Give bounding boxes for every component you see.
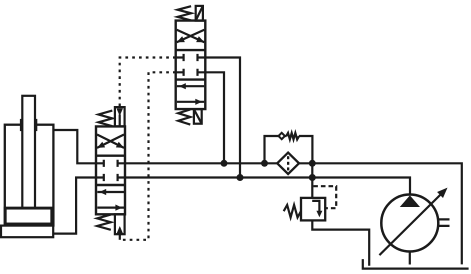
wire bypass branch (265, 136, 313, 163)
rod gland bar right (34, 119, 37, 131)
junction node 3 (309, 160, 316, 167)
junction node 2 (261, 160, 268, 167)
rod gland bar left (20, 119, 23, 131)
relief valve RV1 body (301, 198, 325, 221)
wire V2 lower port to line 1 (205, 72, 224, 163)
pump drive shaft (438, 219, 450, 226)
link line1-line2 to relief (311, 163, 313, 198)
relief valve flow arrow (312, 201, 322, 217)
pilot line to V1 top pilot (120, 58, 176, 108)
valve V2 blocked centre ports (176, 54, 206, 76)
relief valve spring (284, 205, 301, 217)
pilot line to V1 bottom pilot (122, 72, 176, 240)
valve V2 parallel-flow position (177, 83, 204, 105)
valve V2 crossed-flow position (177, 30, 205, 43)
valve V1 blocked centre ports (96, 160, 125, 181)
valve V2 bottom solenoid (194, 109, 202, 124)
pump P1 circle (381, 195, 438, 252)
bypass check valve poppet (279, 133, 285, 139)
valve V1 body (96, 126, 125, 214)
valve V1 bottom pilot arrow (117, 226, 124, 240)
pump outlet triangle (400, 195, 420, 207)
wire relief drain to tank (312, 220, 369, 265)
cylinder piston rod (22, 96, 35, 208)
valve V2 top spring (178, 6, 192, 20)
valve V1 bottom pilot box (115, 214, 125, 234)
valve V1 parallel-flow position (97, 189, 124, 211)
valve V1 top pilot arrow (116, 108, 123, 126)
filter element dots (287, 156, 289, 170)
pump variable arrow (379, 188, 447, 256)
valve V1 crossed-flow position (97, 135, 124, 148)
valve V2 top solenoid (196, 6, 203, 21)
line 1 pressure rail (125, 163, 462, 264)
wire rod-side port to valve (53, 130, 96, 163)
filter F1 (277, 153, 299, 174)
relief valve pilot line (313, 186, 336, 208)
valve V1 top spring (99, 111, 113, 127)
junction node 5 (309, 174, 316, 181)
valve V2 bottom spring (178, 109, 190, 124)
wire pump suction (409, 252, 411, 265)
valve V1 top pilot box (115, 107, 125, 126)
wire V2 upper port to line 2 (205, 58, 240, 178)
cylinder piston (5, 208, 52, 224)
cylinder end cap (1, 226, 53, 238)
valve V1 bottom spring (97, 215, 111, 230)
bypass check valve spring (286, 133, 299, 139)
line 2 rail to pump (125, 178, 410, 195)
wire cap-side port to valve (53, 178, 96, 234)
valve V2 body (176, 21, 206, 110)
reservoir (363, 259, 469, 269)
cylinder body (5, 125, 54, 226)
junction node 1 (221, 160, 228, 167)
junction node 4 (237, 174, 244, 181)
